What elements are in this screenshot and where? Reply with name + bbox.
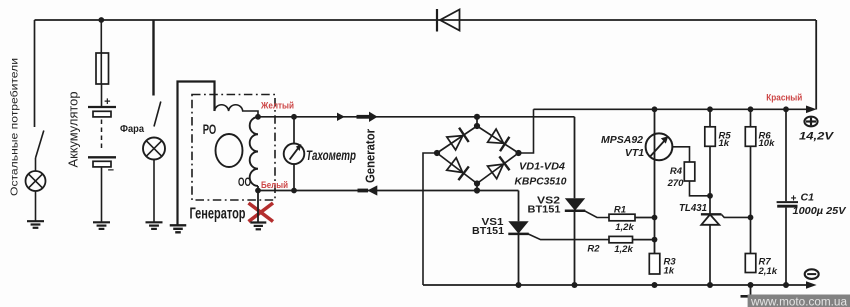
svg-text:Белый: Белый <box>261 180 288 190</box>
svg-text:www.moto.com.ua: www.moto.com.ua <box>750 297 848 307</box>
svg-text:R4: R4 <box>670 166 683 177</box>
svg-text:MPSA92: MPSA92 <box>601 134 643 146</box>
svg-text:1k: 1k <box>719 138 730 149</box>
svg-text:1000µ 25V: 1000µ 25V <box>793 206 847 217</box>
svg-text:1,2k: 1,2k <box>615 222 634 233</box>
svg-text:Тахометр: Тахометр <box>306 147 356 163</box>
svg-text:VD1-VD4: VD1-VD4 <box>519 161 565 173</box>
svg-text:−: − <box>108 165 114 177</box>
svg-text:Красный: Красный <box>766 93 802 103</box>
svg-text:Generator: Generator <box>364 129 378 183</box>
svg-text:14,2V: 14,2V <box>799 131 835 143</box>
svg-text:Остальные потребители: Остальные потребители <box>9 58 21 196</box>
svg-text:KBPC3510: KBPC3510 <box>515 176 567 188</box>
svg-text:BT151: BT151 <box>528 205 561 216</box>
svg-text:Аккумулятор: Аккумулятор <box>66 92 81 168</box>
svg-text:1,2k: 1,2k <box>614 244 633 255</box>
svg-text:+: + <box>791 194 797 205</box>
svg-text:R2: R2 <box>587 244 600 255</box>
svg-text:Фара: Фара <box>120 123 144 135</box>
svg-text:10k: 10k <box>759 138 776 149</box>
svg-text:Желтый: Желтый <box>260 101 294 111</box>
svg-text:1k: 1k <box>664 266 675 277</box>
svg-text:2,1k: 2,1k <box>758 266 778 277</box>
svg-text:+: + <box>104 96 110 108</box>
svg-text:270: 270 <box>667 178 685 189</box>
svg-text:TL431: TL431 <box>679 202 707 214</box>
svg-text:C1: C1 <box>801 192 815 204</box>
svg-text:РО: РО <box>203 122 217 137</box>
svg-text:Генератор: Генератор <box>190 206 246 223</box>
svg-text:BT151: BT151 <box>472 226 504 237</box>
svg-text:VT1: VT1 <box>625 147 644 159</box>
svg-text:R1: R1 <box>614 205 626 216</box>
